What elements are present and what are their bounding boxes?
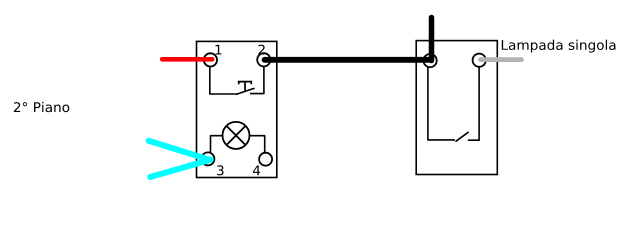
switch box (right) <box>416 41 497 175</box>
wire red (phase feed to terminal 1) <box>162 57 212 62</box>
pin label 3 <box>217 165 224 175</box>
wire from pushbutton right contact up to terminal 2 <box>250 67 264 94</box>
wire cyan upper (return to terminal 3) <box>149 141 211 160</box>
terminal right (switch box) <box>473 54 486 67</box>
net label: Lampada singola <box>502 40 616 53</box>
pushbutton S1 movable contact (slanted blade) <box>237 88 255 94</box>
lamp (indicator lamp, circle with X) <box>223 122 250 149</box>
terminal 1 <box>204 53 217 66</box>
wire black horizontal (terminal 2 to switch box) <box>265 57 431 63</box>
terminal 4 <box>259 153 272 166</box>
net label: 2° Piano <box>14 102 69 112</box>
pin label 2 <box>258 45 264 55</box>
pin label 1 <box>216 45 222 55</box>
pushbutton box (left junction box) <box>197 41 277 177</box>
switch S2 movable contact (slanted blade) <box>456 132 468 141</box>
terminal 3 <box>201 152 214 165</box>
wire from lamp right side down to terminal 4 <box>249 136 264 153</box>
terminal 2 <box>257 53 270 66</box>
terminal left (switch box) <box>424 54 437 67</box>
wire cyan lower (return to terminal 3) <box>150 160 211 177</box>
wire from switch right contact up to right terminal <box>468 67 479 140</box>
wire gray (to single lamp) <box>481 57 522 62</box>
pushbutton S1 actuator (T button) <box>239 82 252 91</box>
wire black vertical (supply from above into switch box) <box>429 18 435 61</box>
wire from lamp left side down to terminal 3 <box>211 136 223 153</box>
pin label 4 <box>253 165 260 175</box>
wire from left terminal down to switch contact <box>428 67 455 140</box>
wire from terminal 1 down to pushbutton left contact <box>210 67 238 94</box>
